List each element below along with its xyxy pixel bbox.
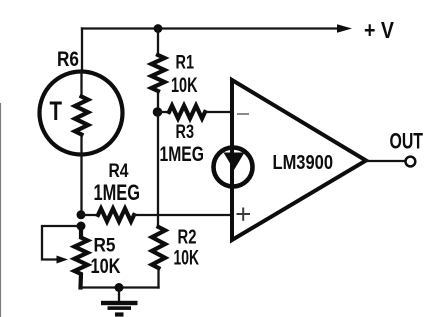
wire R2 to bottom rail bbox=[157, 268, 159, 288]
+V arrowhead bbox=[337, 24, 352, 33]
svg-text:+ V: + V bbox=[364, 17, 395, 43]
svg-text:R6: R6 bbox=[57, 48, 79, 71]
current mirror arrow bbox=[224, 153, 245, 171]
plus sign non-inverting input bbox=[237, 208, 251, 221]
wire R3 to op-amp inverting input bbox=[205, 111, 231, 113]
current mirror circle (Norton input) bbox=[214, 148, 253, 187]
svg-text:R3: R3 bbox=[176, 122, 195, 143]
wire into thermistor bbox=[80, 72, 82, 97]
op-amp U1 LM3900 triangle bbox=[232, 80, 366, 240]
wire +V rail bbox=[82, 27, 345, 29]
resistor R4 zigzag bbox=[98, 209, 134, 222]
node B junction dot bbox=[153, 107, 163, 117]
thermistor internal resistor zigzag bbox=[75, 97, 88, 135]
minus sign inverting input bbox=[237, 113, 249, 115]
ground junction dot bbox=[115, 283, 124, 292]
wire thermistor to node A bbox=[80, 135, 82, 216]
wire R1 to node B bbox=[157, 91, 159, 112]
wire node B to R3 bbox=[158, 111, 170, 113]
wire feedback loop to R5 wiper bbox=[42, 226, 81, 260]
junction dot wiper feedback bbox=[77, 222, 86, 231]
wire R1 branch from rail bbox=[157, 29, 159, 57]
svg-text:10K: 10K bbox=[91, 255, 121, 278]
svg-text:OUT: OUT bbox=[390, 129, 424, 154]
wiper arrowhead bbox=[57, 256, 69, 264]
svg-text:LM3900: LM3900 bbox=[273, 151, 334, 174]
svg-text:R5: R5 bbox=[94, 235, 116, 257]
bottom rail wire bbox=[81, 286, 159, 288]
resistor R1 zigzag bbox=[151, 55, 164, 91]
wire R4 to op-amp non-inverting input bbox=[134, 214, 231, 216]
svg-text:1MEG: 1MEG bbox=[94, 180, 141, 205]
thermistor R6 circle bbox=[40, 72, 123, 155]
ground symbol bbox=[101, 301, 138, 317]
node A junction dot (R4 tap) bbox=[77, 210, 86, 219]
svg-text:R1: R1 bbox=[176, 52, 195, 74]
potentiometer R5 zigzag bbox=[74, 226, 87, 288]
output terminal circle bbox=[406, 157, 416, 167]
svg-text:R4: R4 bbox=[109, 160, 129, 182]
svg-text:R2: R2 bbox=[178, 227, 197, 249]
wire rail down to thermistor R6 bbox=[81, 29, 83, 73]
resistor R2 zigzag bbox=[152, 227, 165, 268]
ground stub bbox=[118, 288, 120, 302]
junction node on rail bbox=[154, 24, 163, 33]
scan edge artifact left bbox=[0, 103, 1, 317]
output wire bbox=[366, 160, 404, 162]
svg-text:10K: 10K bbox=[171, 74, 198, 97]
wire node A to R4 bbox=[81, 214, 99, 216]
wire node B down to plus line bbox=[157, 112, 159, 227]
resistor R3 zigzag bbox=[169, 106, 205, 119]
svg-text:1MEG: 1MEG bbox=[160, 142, 205, 166]
svg-text:T: T bbox=[50, 96, 63, 126]
svg-text:10K: 10K bbox=[174, 247, 200, 270]
